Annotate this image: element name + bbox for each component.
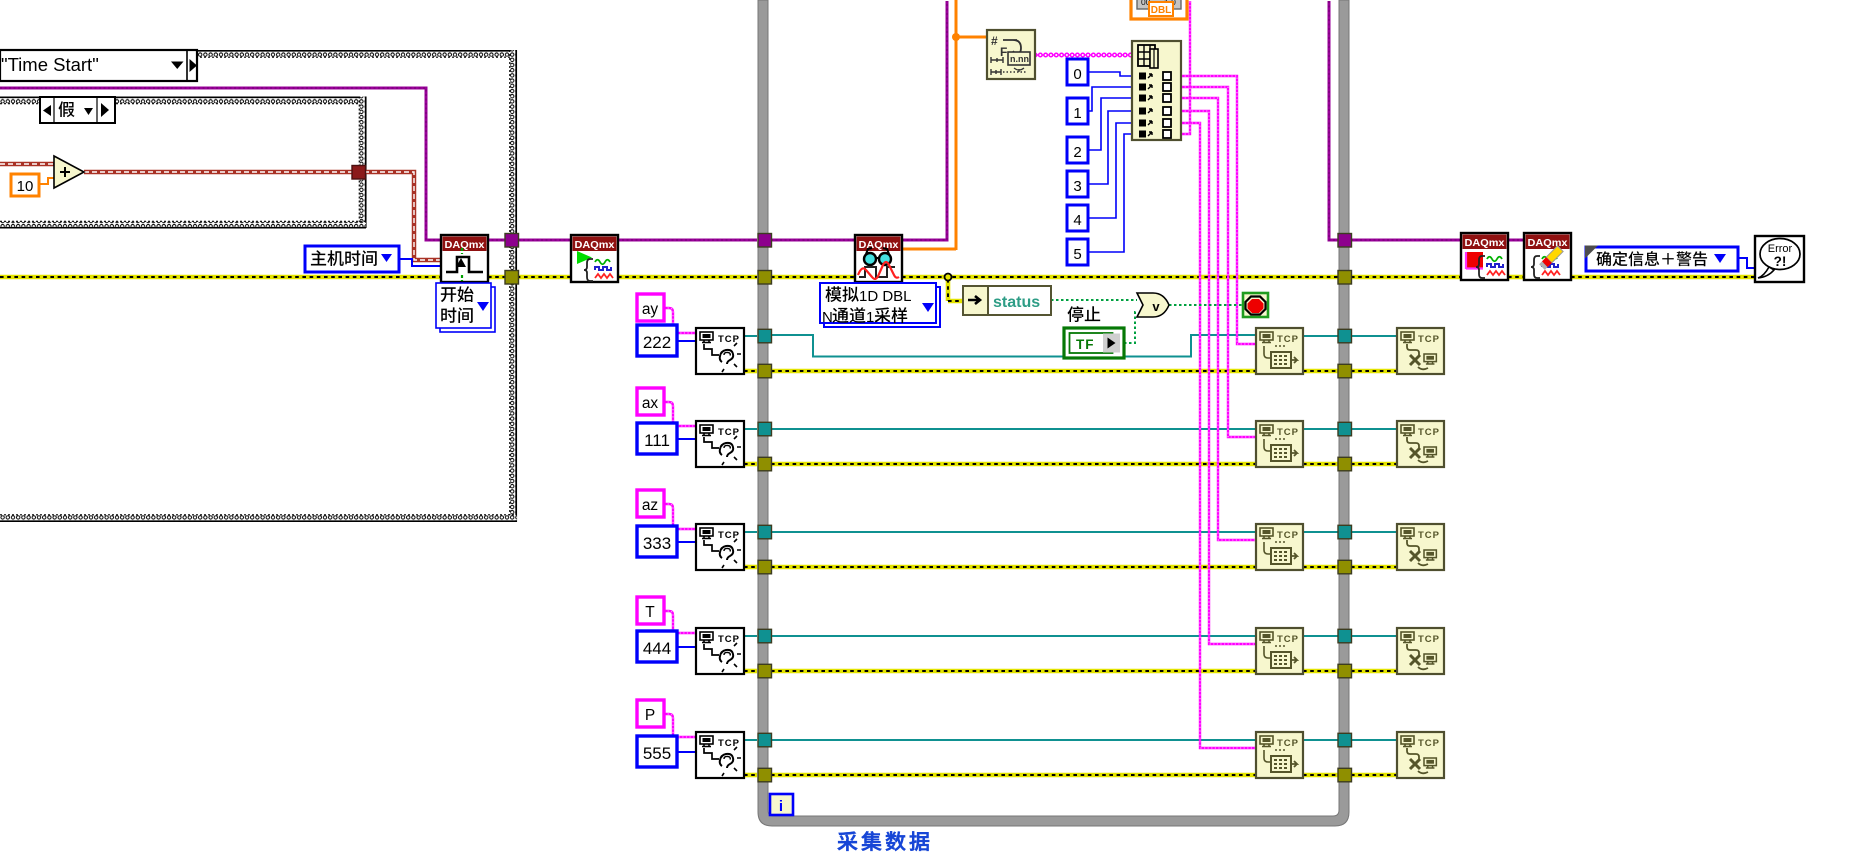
svg-text:4: 4 bbox=[1073, 212, 1081, 229]
DAQmx Read node bbox=[855, 235, 902, 282]
inner case maroon tunnel bbox=[352, 166, 366, 180]
svg-text:TCP: TCP bbox=[1418, 738, 1440, 749]
TCP write node row 2 bbox=[1256, 421, 1303, 467]
svg-text:ay: ay bbox=[642, 301, 659, 318]
svg-text:555: 555 bbox=[643, 744, 671, 763]
svg-text:DAQmx: DAQmx bbox=[575, 240, 615, 251]
pink string wires from index array to TCP write nodes bbox=[1181, 1, 1256, 748]
TCP write node row 3 bbox=[1256, 524, 1303, 570]
svg-text:444: 444 bbox=[643, 639, 671, 658]
svg-text:?!: ?! bbox=[1774, 254, 1787, 269]
add function node bbox=[54, 156, 84, 188]
error wire branch to unbundle bbox=[945, 274, 966, 302]
svg-text:TCP: TCP bbox=[1277, 427, 1299, 438]
svg-text:TCP: TCP bbox=[1418, 334, 1440, 345]
TCP listen node row 4 bbox=[696, 628, 744, 674]
Number To Fractional String node bbox=[987, 30, 1035, 79]
selector label 确定信息＋警告 bbox=[1585, 246, 1738, 272]
inner case structure border (false case) bbox=[0, 97, 366, 229]
svg-text:F: F bbox=[1000, 45, 1007, 59]
string constant ay bbox=[637, 294, 664, 321]
string constant az bbox=[637, 490, 664, 517]
selector label 主机时间 bbox=[305, 246, 399, 272]
svg-text:TCP: TCP bbox=[1277, 530, 1299, 541]
row 5 error wire bbox=[744, 773, 1397, 778]
numeric constant 222 bbox=[637, 325, 677, 356]
svg-text:v: v bbox=[1152, 299, 1160, 314]
TCP close node row 3 bbox=[1397, 524, 1444, 570]
svg-text:TF: TF bbox=[1076, 337, 1095, 352]
stop button bbox=[1243, 293, 1268, 317]
svg-text:1: 1 bbox=[1073, 105, 1081, 122]
orange wire from constant 10 bbox=[39, 178, 57, 184]
svg-text:"Time Start": "Time Start" bbox=[1, 54, 99, 75]
row 1 teal TCP connection wire bbox=[744, 335, 1397, 357]
pink wires string constants to TCP listen bbox=[664, 308, 696, 737]
orange DBL array wire bbox=[902, 0, 987, 250]
blue wires index constants to Index Array bbox=[1088, 72, 1132, 252]
TCP close node row 1 bbox=[1397, 328, 1444, 374]
svg-text:TCP: TCP bbox=[1277, 334, 1299, 345]
TCP close node row 5 bbox=[1397, 732, 1444, 778]
svg-text:TCP: TCP bbox=[1418, 634, 1440, 645]
TCP listen node row 3 bbox=[696, 524, 744, 570]
svg-text:N: N bbox=[822, 309, 833, 326]
TCP listen node row 5 bbox=[696, 732, 744, 778]
svg-text:az: az bbox=[642, 497, 658, 514]
TCP close node row 4 bbox=[1397, 628, 1444, 674]
svg-text:2: 2 bbox=[1073, 144, 1081, 161]
svg-text:10: 10 bbox=[17, 178, 34, 195]
loop label 采集数据 bbox=[838, 831, 930, 851]
svg-text:T: T bbox=[645, 604, 655, 621]
while loop border bbox=[758, 0, 1349, 826]
svg-text:DAQmx: DAQmx bbox=[1528, 238, 1568, 249]
svg-text:3: 3 bbox=[1073, 178, 1081, 195]
svg-text:TCP: TCP bbox=[1418, 530, 1440, 541]
DAQmx Stop Task node bbox=[1461, 233, 1508, 280]
row 1 error wire bbox=[744, 369, 1397, 374]
svg-text:TCP: TCP bbox=[1277, 634, 1299, 645]
blue wire 主机时间 selector to trigger node bbox=[399, 259, 441, 266]
svg-text:status: status bbox=[993, 294, 1040, 311]
row 2 error wire bbox=[744, 462, 1397, 467]
numeric constant 333 bbox=[637, 526, 677, 557]
string constant T bbox=[637, 597, 664, 624]
svg-text:333: 333 bbox=[643, 534, 671, 553]
simple error handler node bbox=[1755, 236, 1804, 282]
numeric constant 444 bbox=[637, 631, 677, 662]
loop iteration terminal i bbox=[770, 794, 793, 815]
svg-text:DAQmx: DAQmx bbox=[859, 240, 899, 251]
numeric constant 111 bbox=[637, 423, 677, 454]
numeric constant 10 bbox=[11, 174, 39, 196]
boolean control 停止 bbox=[1064, 306, 1124, 358]
maroon timestamp wire bbox=[0, 164, 441, 260]
DAQmx Trigger node bbox=[441, 235, 488, 282]
row 5 teal TCP connection wire bbox=[744, 739, 1397, 741]
purple DAQmx task wire bbox=[0, 1, 1524, 240]
svg-text:P: P bbox=[645, 707, 655, 724]
TCP write node row 5 bbox=[1256, 732, 1303, 778]
svg-text:111: 111 bbox=[644, 431, 670, 450]
row 3 teal TCP connection wire bbox=[744, 531, 1397, 533]
string constant P bbox=[637, 700, 664, 727]
outer case selector label "Time Start" bbox=[0, 50, 197, 81]
svg-text:i: i bbox=[779, 798, 783, 815]
TCP listen node row 1 bbox=[696, 328, 744, 374]
svg-text:TCP: TCP bbox=[1277, 738, 1299, 749]
svg-text:1: 1 bbox=[866, 309, 874, 326]
svg-text:n.nn: n.nn bbox=[1010, 54, 1029, 64]
TCP close node row 2 bbox=[1397, 421, 1444, 467]
index constants 0-5 bbox=[1067, 59, 1088, 265]
selector label 开始时间 bbox=[436, 283, 495, 332]
svg-text:1D DBL: 1D DBL bbox=[859, 288, 912, 305]
svg-text:222: 222 bbox=[643, 333, 671, 352]
svg-text:TCP: TCP bbox=[1418, 427, 1440, 438]
svg-text:#: # bbox=[991, 34, 998, 48]
numeric constant 555 bbox=[637, 736, 677, 767]
DBL conversion indicator (clipped) bbox=[1131, 0, 1187, 19]
loop left tunnels bbox=[758, 234, 772, 782]
svg-text:DAQmx: DAQmx bbox=[1465, 238, 1505, 249]
svg-text:DBL: DBL bbox=[1151, 5, 1172, 16]
inner case selector label 假 bbox=[40, 97, 115, 123]
TCP write node row 1 bbox=[1256, 328, 1303, 374]
case structure tunnels bbox=[505, 234, 519, 285]
row 2 teal TCP connection wire bbox=[744, 428, 1397, 430]
row 3 error wire bbox=[744, 565, 1397, 570]
svg-text:ax: ax bbox=[642, 395, 659, 412]
row 4 error wire bbox=[744, 669, 1397, 674]
loop right tunnels bbox=[1338, 234, 1352, 782]
blue wires numeric constants to TCP listen bbox=[677, 341, 696, 752]
selector label 模拟1D DBL N通道1采样 bbox=[820, 283, 940, 327]
unbundle by name status bbox=[963, 286, 1051, 315]
green boolean wires bbox=[1051, 300, 1243, 343]
pink string array wire (Number To Fractional String to Index Array) bbox=[1035, 54, 1132, 56]
TCP write node row 4 bbox=[1256, 628, 1303, 674]
main error wire bbox=[0, 275, 1757, 280]
svg-text:0: 0 bbox=[1073, 66, 1081, 83]
OR function node bbox=[1137, 293, 1169, 317]
svg-text:DAQmx: DAQmx bbox=[445, 240, 485, 251]
DAQmx Start Task node bbox=[571, 235, 618, 282]
blue wire 确定信息 selector to error handler bbox=[1738, 258, 1755, 268]
svg-text:5: 5 bbox=[1073, 246, 1081, 263]
Index Array node bbox=[1132, 41, 1181, 140]
outer case structure border "Time Start" bbox=[0, 50, 517, 522]
string constant ax bbox=[637, 388, 664, 415]
row 4 teal TCP connection wire bbox=[744, 635, 1397, 637]
DAQmx Clear Task node bbox=[1524, 233, 1571, 280]
TCP listen node row 2 bbox=[696, 421, 744, 467]
